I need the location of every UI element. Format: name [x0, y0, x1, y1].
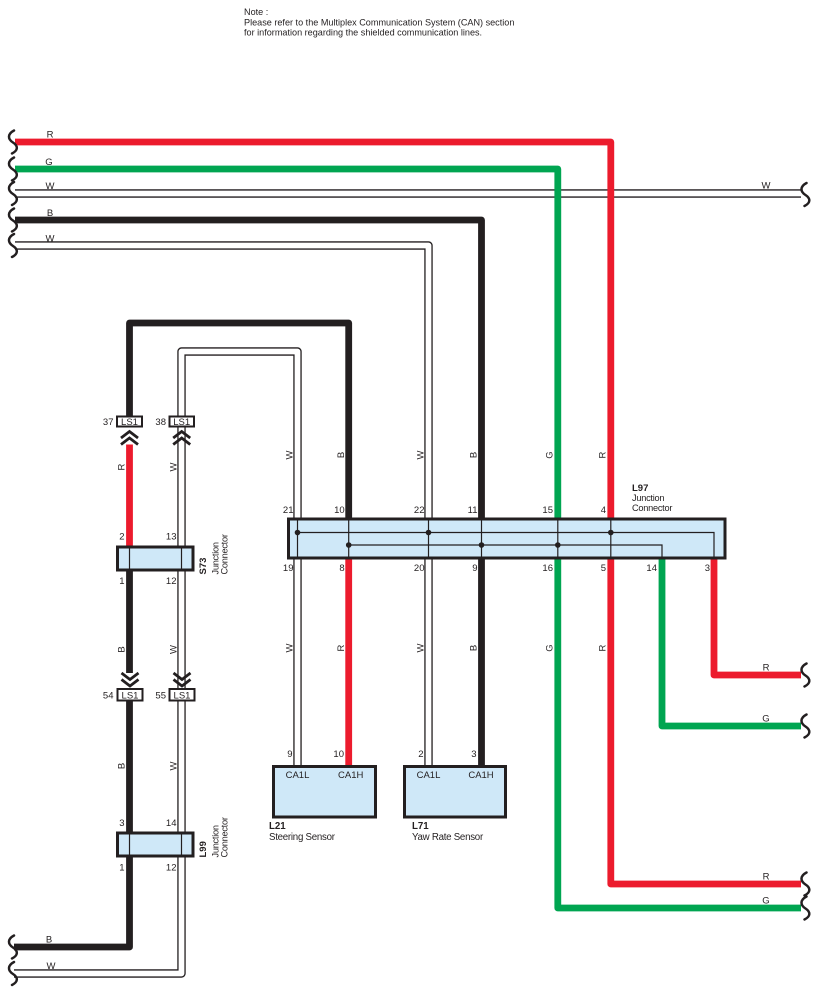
svg-text:LS1: LS1 — [121, 417, 138, 428]
svg-text:9: 9 — [287, 749, 292, 760]
svg-text:LS1: LS1 — [174, 691, 191, 702]
svg-text:G: G — [45, 157, 52, 168]
svg-text:8: 8 — [339, 563, 344, 574]
svg-text:Yaw Rate Sensor: Yaw Rate Sensor — [412, 832, 484, 843]
svg-text:W: W — [168, 462, 179, 471]
svg-text:G: G — [762, 714, 769, 725]
svg-text:for information regarding the: for information regarding the shielded c… — [244, 28, 482, 38]
svg-text:Connector: Connector — [220, 534, 230, 574]
svg-text:16: 16 — [542, 563, 553, 574]
svg-text:37: 37 — [103, 417, 114, 428]
svg-text:L71: L71 — [412, 821, 429, 832]
svg-text:B: B — [468, 452, 479, 458]
svg-text:12: 12 — [166, 576, 177, 587]
svg-text:54: 54 — [103, 691, 114, 702]
svg-text:CA1H: CA1H — [338, 770, 363, 781]
svg-text:1: 1 — [119, 576, 124, 587]
svg-text:2: 2 — [418, 749, 423, 760]
svg-text:R: R — [47, 130, 54, 141]
svg-text:CA1H: CA1H — [468, 770, 493, 781]
svg-text:LS1: LS1 — [122, 691, 139, 702]
svg-text:13: 13 — [166, 532, 177, 543]
svg-text:R: R — [336, 644, 347, 651]
svg-text:W: W — [168, 761, 179, 770]
svg-text:R: R — [763, 872, 770, 883]
svg-text:R: R — [598, 644, 609, 651]
svg-text:22: 22 — [414, 505, 425, 516]
svg-text:R: R — [116, 463, 127, 470]
svg-text:19: 19 — [283, 563, 294, 574]
svg-text:20: 20 — [414, 563, 425, 574]
svg-text:L21: L21 — [269, 821, 286, 832]
svg-text:Note :: Note : — [244, 7, 268, 17]
svg-text:L99: L99 — [198, 841, 209, 857]
svg-text:38: 38 — [155, 417, 166, 428]
svg-text:LS1: LS1 — [173, 417, 190, 428]
svg-text:R: R — [763, 663, 770, 674]
svg-text:W: W — [415, 643, 426, 652]
svg-text:W: W — [46, 234, 55, 245]
svg-text:CA1L: CA1L — [417, 770, 441, 781]
svg-text:3: 3 — [705, 563, 710, 574]
svg-text:3: 3 — [119, 818, 124, 829]
svg-text:21: 21 — [283, 505, 294, 516]
svg-text:W: W — [284, 643, 295, 652]
svg-text:B: B — [468, 645, 479, 651]
svg-text:W: W — [762, 181, 771, 192]
svg-text:5: 5 — [601, 563, 606, 574]
svg-text:Junction: Junction — [632, 493, 664, 503]
svg-text:2: 2 — [119, 532, 124, 543]
svg-text:B: B — [46, 935, 52, 946]
svg-text:CA1L: CA1L — [286, 770, 310, 781]
svg-text:11: 11 — [468, 505, 478, 516]
svg-text:W: W — [47, 961, 56, 972]
svg-text:B: B — [336, 452, 347, 458]
svg-text:B: B — [116, 646, 127, 652]
svg-text:9: 9 — [472, 563, 477, 574]
svg-text:10: 10 — [333, 749, 344, 760]
svg-text:Connector: Connector — [220, 817, 230, 857]
svg-text:B: B — [47, 208, 53, 219]
svg-text:14: 14 — [166, 818, 177, 829]
svg-text:B: B — [116, 763, 127, 769]
svg-text:W: W — [46, 181, 55, 192]
svg-text:3: 3 — [471, 749, 476, 760]
svg-text:Connector: Connector — [632, 503, 672, 513]
svg-text:Steering Sensor: Steering Sensor — [269, 832, 336, 843]
svg-text:55: 55 — [155, 691, 166, 702]
svg-text:G: G — [545, 451, 556, 458]
svg-text:10: 10 — [334, 505, 345, 516]
svg-text:G: G — [762, 896, 769, 907]
svg-text:14: 14 — [646, 563, 657, 574]
svg-text:R: R — [598, 451, 609, 458]
svg-text:S73: S73 — [198, 558, 209, 575]
svg-text:15: 15 — [542, 505, 553, 516]
svg-text:G: G — [545, 644, 556, 651]
svg-text:Please refer to the Multiplex: Please refer to the Multiplex Communicat… — [244, 18, 514, 28]
svg-text:W: W — [415, 450, 426, 459]
svg-text:4: 4 — [601, 505, 606, 516]
svg-text:1: 1 — [119, 863, 124, 874]
svg-text:W: W — [284, 450, 295, 459]
svg-text:W: W — [168, 645, 179, 654]
svg-text:12: 12 — [166, 863, 177, 874]
